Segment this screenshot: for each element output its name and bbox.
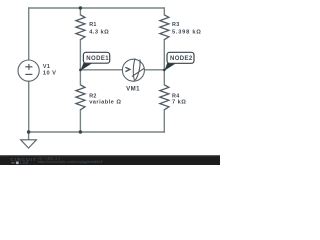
svg-text:R3: R3 [172, 22, 180, 28]
svg-text:R4: R4 [172, 94, 180, 100]
svg-text:NODE1: NODE1 [86, 56, 109, 62]
svg-text:4.3 kΩ: 4.3 kΩ [89, 30, 109, 36]
svg-text:R2: R2 [89, 94, 97, 100]
svg-text:variable Ω: variable Ω [89, 100, 121, 106]
svg-text:VM1: VM1 [126, 85, 140, 92]
svg-text:10 V: 10 V [43, 70, 57, 76]
svg-text:R1: R1 [89, 22, 97, 28]
svg-text:NODE2: NODE2 [170, 56, 193, 62]
svg-text:7 kΩ: 7 kΩ [172, 100, 186, 106]
svg-text:LAB: LAB [20, 161, 28, 165]
svg-text:V1: V1 [43, 64, 50, 70]
svg-text:http://circuitlab.com/c/q3gqbv: http://circuitlab.com/c/q3gqbvbd6k9 [38, 160, 103, 164]
svg-text:5.398 kΩ: 5.398 kΩ [172, 30, 202, 36]
